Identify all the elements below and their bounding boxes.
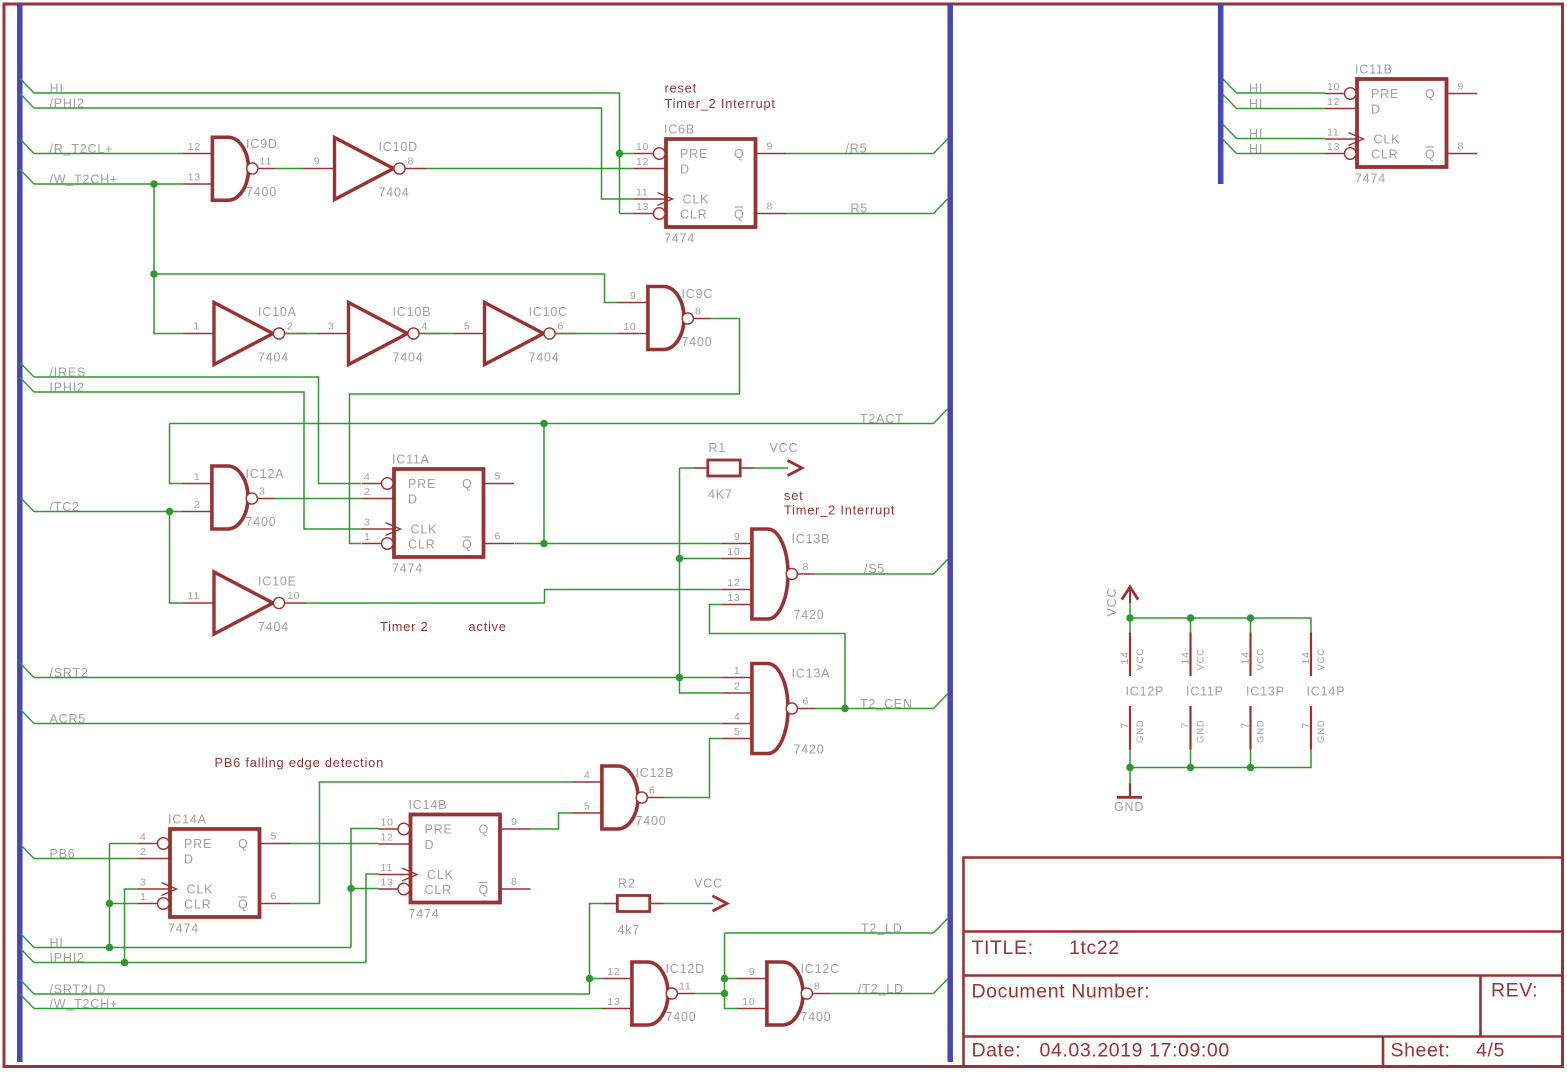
wire to IC12D pin12	[590, 978, 603, 980]
svg-text:8: 8	[814, 981, 821, 993]
svg-text:11: 11	[381, 862, 394, 874]
svg-text:8: 8	[767, 201, 774, 213]
junction /TC2	[166, 508, 174, 516]
wire /W_T2CH+ to IC10A	[154, 184, 183, 334]
wire IC12D out	[695, 993, 725, 995]
svg-text:/R5: /R5	[846, 142, 868, 156]
svg-text:7400: 7400	[246, 515, 277, 529]
svg-text:10: 10	[636, 141, 649, 153]
svg-text:7: 7	[1119, 722, 1131, 729]
svg-text:Q: Q	[462, 477, 473, 491]
svg-text:IC9D: IC9D	[246, 137, 278, 151]
svg-text:1: 1	[140, 891, 147, 903]
net /R_T2CL+ bus entry	[20, 139, 34, 154]
svg-text:11: 11	[260, 156, 273, 168]
wire GND rail	[1130, 750, 1311, 768]
NAND gate IC12B	[573, 764, 675, 830]
svg-text:IC13B: IC13B	[792, 532, 831, 546]
svg-text:7420: 7420	[794, 608, 825, 622]
svg-text:14: 14	[1180, 651, 1192, 664]
wire IC10E out to IC13B pin12	[306, 590, 722, 604]
svg-text:active: active	[469, 619, 507, 634]
svg-text:Q: Q	[734, 208, 745, 222]
D flip-flop IC14A	[138, 813, 290, 936]
VCC symbol	[1122, 587, 1138, 600]
svg-text:4k7: 4k7	[618, 923, 641, 937]
svg-text:REV:: REV:	[1491, 980, 1538, 1002]
junction R1/pin10	[676, 555, 684, 563]
wire R1 left	[680, 467, 695, 469]
svg-text:8: 8	[695, 306, 702, 318]
net /PHI2 bus entry	[20, 94, 34, 109]
svg-text:VCC: VCC	[694, 877, 723, 891]
svg-text:D: D	[425, 838, 435, 852]
svg-text:4: 4	[584, 770, 591, 782]
svg-text:IC11B: IC11B	[1355, 63, 1393, 77]
svg-text:/S5: /S5	[864, 562, 885, 576]
net /SRT2LD bus entry	[20, 980, 34, 995]
svg-text:IC13P: IC13P	[1246, 685, 1285, 699]
wire /W_T2CH+ to IC9C pin 9	[154, 274, 619, 303]
svg-text:8: 8	[408, 156, 415, 168]
svg-text:/W_T2CH+: /W_T2CH+	[50, 997, 119, 1011]
wire HI to IC14B PRE/CLR	[351, 829, 379, 948]
junction HI	[106, 944, 114, 952]
wire IC14A Q to IC14B D	[290, 843, 379, 845]
svg-text:4/5: 4/5	[1476, 1040, 1505, 1062]
wire net /R_T2CL+	[34, 153, 183, 155]
svg-text:04.03.2019 17:09:00: 04.03.2019 17:09:00	[1040, 1040, 1230, 1062]
junction Qbar net	[540, 540, 548, 548]
svg-text:12: 12	[1327, 96, 1340, 108]
net /TC2 bus entry	[20, 497, 34, 512]
svg-text:8: 8	[511, 876, 518, 888]
svg-text:2: 2	[734, 681, 741, 693]
junction pin9	[721, 975, 729, 983]
svg-text:7400: 7400	[682, 335, 713, 349]
svg-text:1: 1	[364, 531, 371, 543]
svg-text:2: 2	[194, 499, 201, 511]
inverter IC10E	[183, 572, 306, 634]
svg-text:7404: 7404	[393, 351, 424, 365]
junction /W_T2CH+	[150, 180, 158, 188]
net IPHI2 bottom bus entry	[20, 948, 34, 963]
svg-text:CLK: CLK	[427, 868, 454, 882]
junction IC12D out	[721, 990, 729, 998]
svg-text:6: 6	[803, 696, 810, 708]
svg-text:7400: 7400	[801, 1010, 832, 1024]
svg-text:4: 4	[422, 321, 429, 333]
junction HI/PRE	[616, 150, 624, 158]
svg-text:12: 12	[381, 832, 394, 844]
svg-text:Q: Q	[1425, 148, 1436, 162]
svg-text:9: 9	[630, 290, 637, 302]
wire IPHI2 to IC14A CLK	[125, 889, 139, 963]
inverter IC10C	[454, 303, 577, 365]
svg-text:Timer_2 Interrupt: Timer_2 Interrupt	[665, 96, 776, 111]
wire net IPHI2	[34, 392, 362, 529]
svg-text:IC12P: IC12P	[1126, 685, 1165, 699]
NAND gate IC13B	[722, 527, 830, 622]
svg-text:6: 6	[495, 531, 502, 543]
svg-text:7400: 7400	[246, 185, 277, 199]
wire R5	[786, 213, 934, 215]
svg-text:Q: Q	[479, 883, 490, 897]
D flip-flop IC14B	[379, 798, 531, 921]
svg-text:IC11A: IC11A	[392, 453, 430, 467]
svg-text:PRE: PRE	[184, 837, 212, 851]
svg-text:1: 1	[194, 471, 201, 483]
wire net /W_T2CH+	[34, 183, 183, 185]
svg-text:5: 5	[271, 831, 278, 843]
svg-text:7474: 7474	[392, 562, 423, 576]
svg-text:9: 9	[1458, 81, 1465, 93]
D flip-flop IC11B	[1325, 63, 1477, 186]
wire T2ACT to IC12A pin1	[170, 424, 184, 484]
svg-text:14: 14	[1240, 651, 1252, 664]
net /SRT2 bus entry	[20, 663, 34, 678]
svg-text:HI: HI	[1249, 82, 1263, 96]
VCC symbol	[788, 460, 803, 475]
wire /S5	[815, 573, 934, 575]
svg-text:/TC2: /TC2	[50, 500, 80, 514]
wire net HI top	[34, 93, 620, 214]
net ACR5 bus entry	[20, 709, 34, 724]
svg-text:9: 9	[749, 966, 756, 978]
svg-text:IC12D: IC12D	[666, 962, 705, 976]
svg-text:Q: Q	[462, 538, 473, 552]
svg-text:VCC: VCC	[770, 441, 799, 455]
svg-text:7474: 7474	[664, 232, 695, 246]
svg-text:2: 2	[364, 486, 371, 498]
svg-text:1tc22: 1tc22	[1069, 937, 1120, 959]
svg-text:7404: 7404	[529, 351, 560, 365]
svg-text:PB6 falling edge detection: PB6 falling edge detection	[215, 755, 385, 770]
wire /TC2 to IC10E	[170, 512, 184, 604]
svg-text:D: D	[1371, 103, 1381, 117]
svg-text:reset: reset	[665, 81, 697, 96]
svg-text:R1: R1	[709, 441, 727, 455]
power gate IC14P	[1300, 633, 1345, 750]
wire net /T2_LD	[830, 993, 934, 995]
svg-text:12: 12	[188, 141, 201, 153]
wire IC12B out to IC13A pin5	[665, 739, 723, 798]
junction HI/CLR14B	[347, 885, 355, 893]
wire R2 to VCC	[664, 903, 714, 905]
svg-text:GND: GND	[1316, 719, 1327, 743]
svg-text:12: 12	[727, 577, 740, 589]
svg-text:CLK: CLK	[411, 523, 438, 537]
svg-text:VCC: VCC	[1135, 648, 1146, 670]
svg-text:CLR: CLR	[184, 898, 211, 912]
junction T2ACT	[540, 420, 548, 428]
svg-text:R2: R2	[618, 877, 636, 891]
svg-text:T2_CEN: T2_CEN	[860, 697, 913, 711]
net T2ACT wire	[170, 423, 934, 425]
svg-text:10: 10	[287, 590, 300, 602]
wire IC14A Qbar to IC12B pin4	[290, 782, 573, 904]
svg-text:GND: GND	[1196, 719, 1207, 743]
svg-text:IC10A: IC10A	[258, 305, 297, 319]
D flip-flop IC6B	[634, 123, 786, 246]
svg-text:/T2_LD: /T2_LD	[858, 982, 904, 996]
svg-text:/SRT2: /SRT2	[50, 666, 89, 680]
svg-text:2: 2	[140, 846, 147, 858]
svg-text:6: 6	[271, 891, 278, 903]
svg-text:3: 3	[364, 517, 371, 529]
junction CLR	[106, 900, 114, 908]
svg-text:7474: 7474	[409, 907, 440, 921]
inverter IC10D	[304, 138, 427, 200]
junction R1//SRT2	[676, 674, 684, 682]
svg-text:11: 11	[679, 981, 692, 993]
svg-text:IC11P: IC11P	[1186, 685, 1224, 699]
wire net /SRT2	[34, 677, 722, 679]
title block frame	[964, 858, 1563, 1067]
wire R1 to VCC	[755, 467, 789, 469]
wire net IPHI2 bottom	[34, 962, 366, 964]
svg-text:PRE: PRE	[680, 147, 708, 161]
svg-text:IPHI2: IPHI2	[50, 951, 85, 965]
svg-text:D: D	[680, 163, 690, 177]
svg-text:5: 5	[464, 321, 471, 333]
svg-text:HI: HI	[50, 82, 64, 96]
svg-text:CLR: CLR	[408, 538, 435, 552]
D flip-flop IC11A	[362, 453, 514, 576]
wire net /TC2	[34, 511, 183, 513]
NAND gate IC12D	[603, 960, 705, 1026]
svg-text:PB6: PB6	[50, 847, 76, 861]
wire IPHI2 to IC14B CLK	[366, 874, 379, 963]
wire /SRT2LD to R2	[590, 904, 605, 995]
svg-text:8: 8	[1458, 141, 1465, 153]
power gate IC11P	[1180, 614, 1224, 771]
svg-text:Q: Q	[479, 823, 490, 837]
svg-text:D: D	[408, 493, 418, 507]
wire net /SRT2LD	[34, 993, 590, 995]
svg-text:Q: Q	[238, 898, 249, 912]
svg-text:1: 1	[193, 321, 200, 333]
wire IC10C-IC9C	[556, 333, 619, 335]
svg-text:7420: 7420	[794, 743, 825, 757]
svg-text:IC9C: IC9C	[682, 287, 714, 301]
wire IC12A out to IC11A D	[275, 498, 363, 500]
svg-text:T2ACT: T2ACT	[860, 412, 904, 426]
wire net ACR5	[34, 723, 722, 725]
svg-text:PRE: PRE	[425, 823, 453, 837]
svg-text:13: 13	[727, 592, 740, 604]
svg-text:12: 12	[636, 156, 649, 168]
svg-text:Sheet:: Sheet:	[1391, 1040, 1451, 1062]
svg-text:HI: HI	[50, 936, 64, 950]
svg-text:R5: R5	[851, 202, 869, 216]
bus left	[17, 4, 23, 1062]
svg-text:14: 14	[1300, 651, 1312, 664]
svg-text:7474: 7474	[168, 922, 199, 936]
power gate IC13P	[1240, 614, 1285, 771]
svg-text:/R_T2CL+: /R_T2CL+	[50, 142, 114, 156]
svg-text:9: 9	[767, 141, 774, 153]
inverter IC10B	[318, 303, 441, 365]
wire R1 net to IC13B pin10	[680, 558, 723, 560]
svg-text:TITLE:: TITLE:	[972, 937, 1034, 959]
junction T2_CEN	[841, 705, 849, 713]
net HI top bus entry	[20, 79, 34, 94]
svg-text:Q: Q	[238, 837, 249, 851]
svg-text:IC10D: IC10D	[379, 140, 418, 154]
svg-text:11: 11	[188, 590, 201, 602]
svg-text:12: 12	[607, 966, 620, 978]
wire VCC rail	[1129, 603, 1131, 618]
svg-text:9: 9	[511, 816, 518, 828]
svg-text:2: 2	[287, 321, 294, 333]
wire net /PHI2	[34, 108, 634, 199]
svg-text:13: 13	[188, 172, 201, 184]
net PB6 bus entry	[20, 844, 34, 859]
svg-text:Q: Q	[734, 147, 745, 161]
svg-text:11: 11	[636, 187, 649, 199]
svg-text:Timer_2 Interrupt: Timer_2 Interrupt	[784, 503, 895, 518]
svg-text:set: set	[784, 488, 803, 503]
svg-text:GND: GND	[1256, 719, 1267, 743]
svg-text:VCC: VCC	[1256, 648, 1267, 670]
svg-text:GND: GND	[1114, 800, 1144, 814]
NAND gate IC9D	[183, 136, 278, 202]
wire T2_LD vertical	[725, 933, 739, 1009]
svg-text:IC12A: IC12A	[246, 467, 285, 481]
svg-text:IC14P: IC14P	[1307, 685, 1346, 699]
svg-text:3: 3	[140, 877, 147, 889]
svg-text:10: 10	[742, 996, 755, 1008]
svg-text:10: 10	[1327, 81, 1340, 93]
inverter IC10A	[183, 303, 306, 365]
svg-text:Date:: Date:	[972, 1040, 1022, 1062]
wire /R5	[786, 153, 934, 155]
svg-text:7404: 7404	[258, 351, 289, 365]
svg-text:IC14B: IC14B	[409, 798, 448, 812]
svg-text:VCC: VCC	[1105, 588, 1119, 617]
bus middle	[947, 4, 953, 1062]
wire net PB6	[34, 858, 138, 860]
svg-text:ACR5: ACR5	[50, 712, 87, 726]
wire IC10A-IC10B	[285, 333, 318, 335]
svg-text:7404: 7404	[258, 620, 289, 634]
svg-text:11: 11	[1327, 127, 1340, 139]
svg-text:7400: 7400	[666, 1010, 697, 1024]
wire IC10D out to IC6B D	[427, 168, 635, 170]
svg-text:10: 10	[623, 321, 636, 333]
svg-text:IC12B: IC12B	[636, 766, 675, 780]
wire IC9C out to IC11A CLR	[350, 319, 740, 544]
svg-text:HI: HI	[1249, 97, 1263, 111]
svg-text:4: 4	[734, 711, 741, 723]
svg-text:IC12C: IC12C	[801, 962, 840, 976]
junction	[150, 270, 158, 278]
svg-text:CLR: CLR	[1371, 148, 1398, 162]
net /IRES bus entry	[20, 363, 34, 378]
NAND gate IC9C	[619, 285, 714, 351]
svg-text:13: 13	[1327, 141, 1340, 153]
svg-text:3: 3	[328, 321, 335, 333]
svg-text:10: 10	[381, 817, 394, 829]
wire IC14B Q to IC12B pin5	[531, 813, 573, 829]
svg-text:9: 9	[734, 531, 741, 543]
svg-text:/W_T2CH+: /W_T2CH+	[50, 173, 119, 187]
wire net /W_T2CH+ bottom	[34, 1008, 603, 1010]
wire IC9D out to IC10D in	[275, 168, 304, 170]
NAND gate IC13A	[722, 662, 830, 757]
net HI entries for IC11B	[1223, 79, 1237, 93]
wire IC10B-IC10C	[420, 333, 454, 335]
svg-text:7: 7	[1300, 722, 1312, 729]
wire net T2_LD	[725, 932, 934, 934]
wire to GND	[1129, 768, 1131, 784]
resistor R1	[708, 441, 740, 502]
svg-text:IC13A: IC13A	[792, 667, 831, 681]
NAND gate IC12A	[183, 464, 285, 530]
svg-text:5: 5	[495, 471, 502, 483]
wire net /IRES	[34, 377, 362, 484]
svg-text:IPHI2: IPHI2	[50, 381, 85, 395]
svg-text:7: 7	[1180, 722, 1192, 729]
NAND gate IC12C	[738, 960, 840, 1026]
svg-text:Q: Q	[1425, 87, 1436, 101]
bus top right	[1218, 4, 1224, 184]
svg-text:CLK: CLK	[683, 193, 710, 207]
wire to IC12C pin9	[725, 978, 739, 980]
svg-text:10: 10	[727, 546, 740, 558]
svg-text:4: 4	[140, 831, 147, 843]
svg-text:7400: 7400	[636, 814, 667, 828]
svg-text:3: 3	[259, 486, 266, 498]
svg-text:6: 6	[649, 785, 656, 797]
power gate IC12P	[1119, 614, 1164, 771]
svg-text:6: 6	[558, 321, 565, 333]
svg-text:4K7: 4K7	[708, 488, 733, 502]
svg-text:IC10C: IC10C	[529, 305, 568, 319]
svg-text:13: 13	[381, 877, 394, 889]
svg-text:PRE: PRE	[1371, 87, 1399, 101]
svg-text:14: 14	[1119, 651, 1131, 664]
svg-text:IC10B: IC10B	[393, 305, 432, 319]
net IPHI2 bus entry	[20, 378, 34, 393]
svg-text:CLK: CLK	[187, 883, 214, 897]
wire T2_CEN	[815, 708, 934, 710]
wire IC11A Qbar net	[515, 543, 723, 545]
svg-text:HI: HI	[1249, 142, 1263, 156]
svg-text:/IRES: /IRES	[50, 366, 87, 380]
svg-text:HI: HI	[1249, 127, 1263, 141]
svg-text:5: 5	[734, 726, 741, 738]
svg-text:9: 9	[314, 156, 321, 168]
svg-text:/SRT2LD: /SRT2LD	[50, 983, 107, 997]
junction IPHI2/CLK14A	[121, 959, 129, 967]
wire HI to IC14A PRE/CLR	[109, 844, 111, 948]
svg-text:CLK: CLK	[1374, 133, 1401, 147]
svg-text:CLR: CLR	[425, 883, 452, 897]
svg-text:7404: 7404	[379, 186, 410, 200]
resistor R2	[617, 877, 649, 938]
wire T2ACT branch down	[543, 424, 545, 544]
svg-text:CLR: CLR	[680, 208, 707, 222]
net HI bottom bus entry	[20, 933, 34, 948]
svg-text:Timer 2: Timer 2	[380, 619, 429, 634]
svg-text:13: 13	[607, 996, 620, 1008]
net /W_T2CH+ bottom bus entry	[20, 994, 34, 1009]
svg-text:VCC: VCC	[1196, 648, 1207, 670]
svg-text:8: 8	[803, 561, 810, 573]
svg-text:IC6B: IC6B	[664, 123, 695, 137]
